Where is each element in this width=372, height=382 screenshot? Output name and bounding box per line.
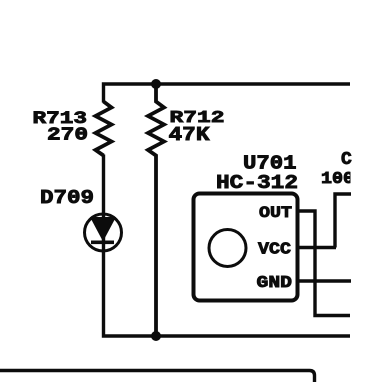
svg-text:270: 270 — [47, 126, 88, 146]
svg-text:GND: GND — [257, 273, 293, 292]
svg-text:VCC: VCC — [258, 240, 291, 259]
svg-text:47K: 47K — [169, 124, 210, 146]
svg-text:100: 100 — [321, 169, 354, 188]
svg-text:C: C — [341, 150, 352, 170]
svg-text:D709: D709 — [40, 187, 94, 209]
svg-text:HC-312: HC-312 — [216, 172, 298, 194]
svg-text:OUT: OUT — [259, 204, 292, 222]
